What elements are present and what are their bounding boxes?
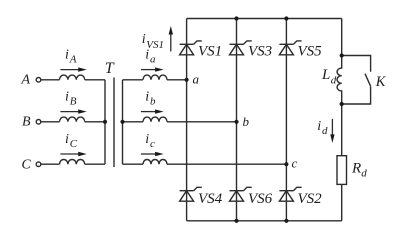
svg-text:VS4: VS4 (198, 191, 223, 207)
svg-text:a: a (193, 71, 200, 86)
svg-text:C: C (22, 157, 32, 172)
wire Rd to bottom bus (341, 184, 343, 220)
svg-text:c: c (150, 138, 155, 150)
wire secondary a (123, 79, 144, 81)
svg-text:A: A (21, 73, 31, 88)
svg-text:i: i (65, 47, 69, 62)
switch K branch bottom wire (342, 86, 371, 104)
svg-text:A: A (69, 54, 77, 66)
transformer secondary winding c (143, 159, 167, 164)
transformer primary winding A (60, 75, 85, 80)
wire bridge leg 1 (186, 19, 188, 221)
svg-text:VS5: VS5 (298, 44, 323, 60)
svg-text:VS6: VS6 (248, 191, 273, 207)
thyristor VS3 (230, 41, 252, 55)
svg-text:b: b (243, 114, 250, 129)
switch K blade (365, 74, 371, 87)
svg-text:T: T (105, 60, 115, 77)
svg-text:VS2: VS2 (298, 191, 323, 207)
node b junction (234, 120, 238, 124)
transformer core (113, 78, 115, 168)
thyristor VS5 (279, 41, 301, 55)
svg-text:K: K (375, 74, 387, 90)
current arrow i_A (60, 67, 86, 71)
thyristor VS6 (230, 187, 252, 201)
svg-text:VS1: VS1 (198, 44, 222, 60)
svg-text:R: R (351, 160, 361, 176)
current arrow i_d (330, 119, 334, 143)
svg-text:d: d (331, 75, 337, 87)
junction top bus leg3 (284, 16, 288, 20)
resistor Rd (337, 156, 347, 185)
switch K branch top wire (342, 56, 371, 72)
svg-text:i: i (145, 89, 149, 104)
svg-text:i: i (142, 32, 146, 47)
svg-text:i: i (317, 119, 321, 134)
terminal C (36, 162, 41, 167)
svg-text:B: B (22, 115, 31, 130)
svg-text:d: d (361, 168, 367, 180)
current arrow i_C (60, 152, 86, 156)
svg-text:VS1: VS1 (146, 39, 164, 51)
transformer secondary winding b (143, 117, 167, 122)
current arrow i_B (60, 109, 86, 113)
junction top bus leg2 (234, 16, 238, 20)
wire secondary c (123, 163, 144, 165)
node a junction (185, 78, 189, 82)
svg-text:d: d (322, 125, 328, 137)
wire bottom dc bus (187, 220, 342, 222)
wire right dc rail upper (341, 19, 343, 56)
transformer primary winding B (60, 117, 85, 122)
terminal A (36, 78, 41, 83)
thyristor VS2 (279, 187, 301, 201)
inductor Ld (337, 56, 342, 105)
junction node primary bus B (103, 120, 107, 124)
wire primary star bus (104, 80, 106, 164)
current arrow i_a (141, 67, 164, 71)
wire phase A (41, 79, 60, 81)
wire phase C (41, 163, 60, 165)
junction Ld top (340, 53, 344, 57)
junction bottom bus leg3 (284, 219, 288, 223)
wire bridge leg 3 (285, 19, 287, 221)
svg-text:i: i (65, 89, 69, 104)
svg-text:VS3: VS3 (248, 44, 272, 60)
junction node secondary bus b (120, 120, 124, 124)
wire b to node b (167, 121, 237, 123)
wire top dc bus (187, 18, 342, 20)
wire A to primary bus (85, 79, 105, 81)
wire B to primary bus (85, 121, 105, 123)
wire secondary star bus (122, 80, 124, 164)
svg-text:C: C (70, 138, 78, 150)
thyristor VS4 (180, 187, 202, 201)
wire bridge leg 2 (236, 19, 238, 221)
current arrow i_b (141, 109, 164, 113)
junction bottom bus leg2 (234, 219, 238, 223)
svg-text:c: c (292, 155, 298, 170)
svg-text:b: b (150, 96, 156, 108)
wire phase B (41, 121, 60, 123)
thyristor VS1 (180, 41, 202, 55)
wire c to node c (167, 163, 286, 165)
current arrow i_VS1 (169, 26, 173, 52)
node c junction (284, 162, 288, 166)
wire Ld to Rd (341, 104, 343, 156)
wire a to node a (167, 79, 187, 81)
wire C to primary bus (85, 163, 105, 165)
svg-text:i: i (145, 132, 149, 147)
transformer secondary winding a (143, 75, 167, 80)
svg-text:B: B (70, 96, 77, 108)
junction Ld bottom (340, 102, 344, 106)
svg-text:a: a (150, 54, 156, 66)
current arrow i_c (141, 152, 164, 156)
svg-text:L: L (321, 67, 330, 83)
terminal B (36, 120, 41, 125)
svg-text:i: i (65, 132, 69, 147)
transformer primary winding C (60, 160, 85, 165)
wire secondary b (123, 121, 144, 123)
